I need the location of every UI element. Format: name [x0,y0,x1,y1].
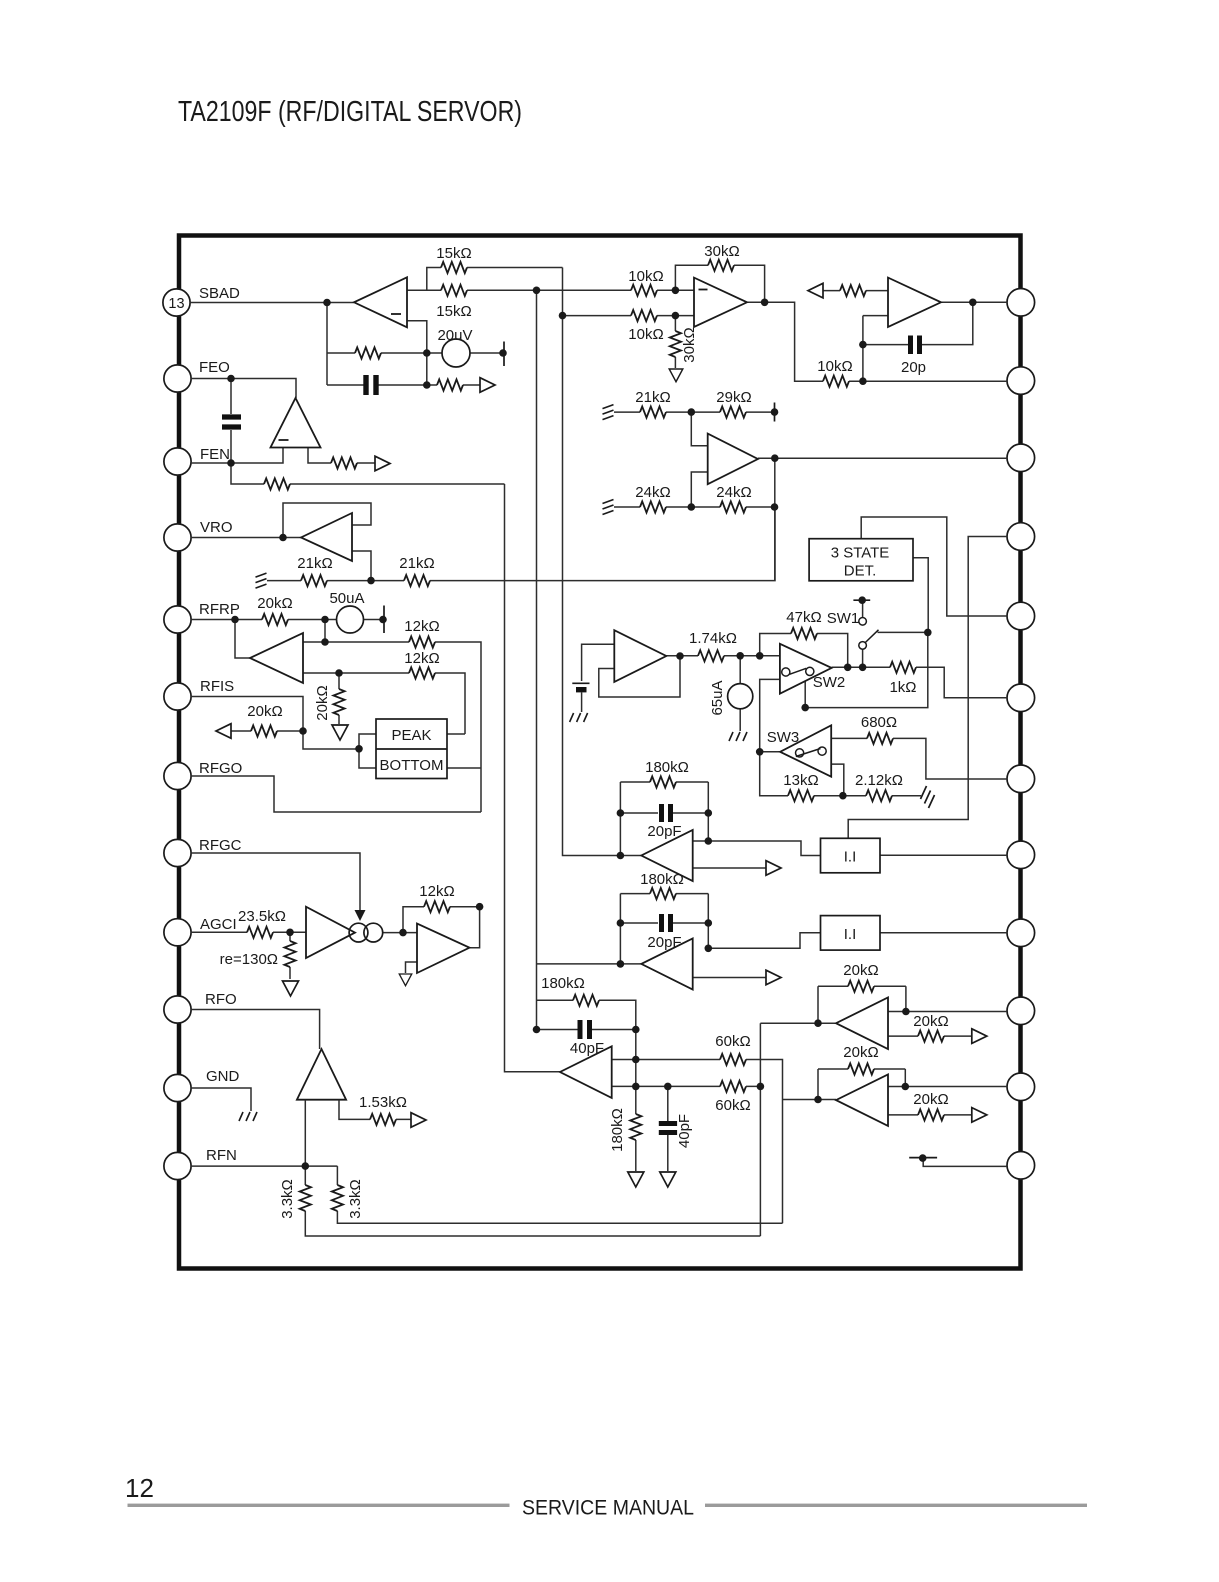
junction dot 24k right [771,503,779,511]
wire 20k vertical column [338,673,340,724]
wire 40pF mb cap row [537,1029,636,1031]
junction dot 65uA node [736,652,744,660]
capacitor mid amp bar [576,687,587,692]
svg-text:20p: 20p [901,359,926,376]
svg-text:12: 12 [125,1473,154,1503]
resistor 30k feedback [708,260,734,271]
ground hash VRO 21k [256,573,267,588]
resistor 15k mid [441,285,467,296]
down arrow 40pF vert [660,1172,676,1187]
resistor 47k [791,628,817,639]
resistor A3 input [840,285,866,296]
junction dot 29k terminal [771,408,779,416]
down arrow AGC amp [399,974,411,986]
SW1 contact bottom [859,642,867,650]
resistor 20k vertical [333,689,344,715]
svg-text:29kΩ: 29kΩ [716,389,751,406]
junction dot cap1 right [705,809,713,817]
capacitor 20pF2 bars [662,914,671,932]
wire 12k row1 y642 [303,642,481,812]
wire 3state box right link [913,558,928,633]
resistor 30k vertical [670,331,681,357]
resistor RFRP 20k [262,614,288,625]
ground hash 65uA [729,732,747,741]
svg-text:3.3kΩ: 3.3kΩ [347,1179,364,1219]
pin RFRP circle [164,606,191,633]
junction dot RFN [302,1162,310,1170]
wire FEO cap column [230,379,232,464]
wire GND pin [191,1088,251,1111]
svg-text:RFGO: RFGO [199,760,242,777]
wire 12k feedback AGC [403,907,480,948]
svg-text:180kΩ: 180kΩ [645,759,689,776]
junction dot amp2 out [705,945,713,953]
wire 10k out row to pin2 [849,380,1007,382]
svg-text:50uA: 50uA [329,590,364,607]
wire A4 feedback vertical x775 [774,458,776,580]
box I.I 2 [821,916,881,951]
wire 20pF2 cap row [620,922,708,924]
wire amp4 apex feed [783,1099,837,1101]
arrow amp3 out [972,1029,987,1044]
wire resistor row y353 [327,352,442,354]
svg-text:680Ω: 680Ω [861,714,897,731]
capacitor 40pF mb bars [580,1020,590,1039]
junction dot 21k29k [688,408,696,416]
svg-text:1kΩ: 1kΩ [889,679,916,696]
arrow 1.53k [411,1113,426,1128]
arrow amp2 out [766,970,781,985]
wire VRO pin to amp [191,537,301,539]
resistor 24k second [720,501,746,512]
wire 21k 29k row y412 [614,411,775,413]
svg-text:TA2109F (RF/DIGITAL SERVOR): TA2109F (RF/DIGITAL SERVOR) [178,96,522,128]
resistor FEN out [331,457,357,468]
wire cap to ground [581,693,583,713]
junction dot 50uA terminal [379,616,387,624]
terminal bar 20uV [503,342,505,367]
svg-text:I.I: I.I [844,926,857,943]
pin RFO circle [164,996,191,1023]
wire mb input1 60k row [612,1060,783,1224]
ground hash 24k row [603,500,614,515]
resistor 21k first [301,575,327,586]
wire SW3 control stub [831,764,844,796]
wire RFRP to amp apex [235,620,250,659]
svg-text:23.5kΩ: 23.5kΩ [238,908,286,925]
RFGC arrow into mirror [355,910,366,921]
svg-text:I.I: I.I [844,849,857,866]
op-amp AGC [417,924,470,974]
svg-text:12kΩ: 12kΩ [404,618,439,635]
wire 24k row y507 [614,506,775,508]
svg-text:20uV: 20uV [437,327,472,344]
resistor FEN feedback [264,478,290,489]
svg-text:PEAK: PEAK [391,727,431,744]
wire FEN feedback row y484 [231,463,505,484]
wire A4 input2 [691,472,707,507]
junction dot 20uV terminal [499,349,507,357]
svg-text:3.3kΩ: 3.3kΩ [279,1179,296,1219]
resistor 23.5k [247,927,273,938]
wire SW3 apex stub [760,751,780,753]
resistor 24k first [640,501,666,512]
junction dot amp1 apex [617,852,625,860]
wire mid amp input bottom loop [599,656,680,697]
pin FEO circle [164,365,191,392]
minus sign FEN amp [279,439,289,441]
current mirror circle 2 [364,923,383,942]
wire A3 input1 [823,290,888,292]
svg-text:1.53kΩ: 1.53kΩ [359,1094,407,1111]
svg-text:12kΩ: 12kΩ [419,883,454,900]
resistor 3.3k first vertical [300,1185,311,1211]
wire VRO feedback box [283,503,371,538]
capacitor C-FEO bars [222,417,241,427]
op-amp A3 [888,278,941,327]
junction dot 10k row1 [672,287,680,295]
right pin 9 circle [1007,919,1035,947]
wire I.I box2 to pin9 [880,932,1007,934]
capacitor C-A bars [366,375,376,395]
junction dot 20p left [859,341,867,349]
right pin 8 circle [1007,841,1035,869]
svg-text:24kΩ: 24kΩ [635,484,670,501]
svg-text:20kΩ: 20kΩ [843,1044,878,1061]
wire AGCI pin row [191,931,306,933]
source 50uA circle [337,606,364,633]
junction dot V3/10k row [559,312,567,320]
down arrow re130 [283,981,299,996]
svg-text:24kΩ: 24kΩ [716,484,751,501]
wire mid amp output row y655.8 [666,655,780,657]
svg-text:FEN: FEN [200,446,230,463]
junction dot cap2 left [617,919,625,927]
wire RFO pin [191,1010,320,1050]
wire amp4 output2 arrow [888,1114,972,1116]
svg-text:30kΩ: 30kΩ [704,243,739,260]
wire amp2 output to I.I box2 [708,933,820,949]
svg-text:30kΩ: 30kΩ [681,327,698,362]
right pin 6 circle [1007,684,1035,712]
junction dot amp4 out [902,1083,910,1091]
wire mirror output [383,932,417,934]
op-amp RFRP [250,633,303,683]
resistor 3.3k second vertical [332,1185,343,1211]
junction dot amp4 apex [814,1096,822,1104]
junction dot SW3 apex [756,748,764,756]
wire 2.12k to hash [843,795,921,797]
junction dot 21k row [367,577,375,585]
terminal bar pin12 [909,1157,937,1159]
resistor 10k row2 [631,310,657,321]
svg-text:60kΩ: 60kΩ [715,1033,750,1050]
wire GND amp base left column [305,1100,760,1236]
junction dot V2 cap [533,1026,541,1034]
minus sign A1 [391,313,401,315]
wire SBAD pin to op-amp A1 [190,302,354,304]
op-amp SW3 [780,725,831,776]
resistor 1.53k [370,1114,396,1125]
svg-text:15kΩ: 15kΩ [436,245,471,262]
long vertical V2 x536.5 [536,290,538,1029]
op-amp A4 [708,434,758,485]
wire mid amp input top to cap [582,644,615,681]
wire mb input2 60k row [612,1085,761,1087]
wire amp2 apex feed [537,963,642,965]
svg-text:GND: GND [206,1068,240,1085]
wire 50uA node down [324,620,326,643]
terminal dot pin12 [919,1154,927,1162]
SW1 lever [865,630,879,643]
right pin 12 circle [1007,1152,1035,1180]
svg-text:47kΩ: 47kΩ [786,609,821,626]
resistor RFIS 20k [251,725,277,736]
wire node A1 inverting branch vertical [326,303,328,386]
resistor 12k AGC [424,901,450,912]
svg-text:SW3: SW3 [767,729,800,746]
resistor 21k row [640,407,666,418]
wire A2 output [747,302,823,381]
svg-text:12kΩ: 12kΩ [404,650,439,667]
SW1 terminal dot [858,596,866,604]
svg-text:3 STATE: 3 STATE [831,545,890,562]
SW2 switch circle left [782,668,790,676]
wire 21k row y580.6 [267,507,775,581]
down arrow 180k vert [628,1172,644,1187]
wire A3 output to pin1 [941,301,1007,303]
junction dot 23.5k [286,929,294,937]
junction dot 47k out [844,664,852,672]
op-amp SW2 [780,644,832,694]
resistor 1.74k [698,650,724,661]
RIGHT PINS [1007,289,1035,1180]
wire RFN pin [191,1165,337,1167]
op-amp mid driver [614,630,666,682]
op-amp 180k amp1 [641,830,692,881]
wire RFGC pin [191,853,360,912]
wire A4 input1 [691,412,707,446]
wire RFRP pin row [191,619,384,621]
svg-text:RFO: RFO [205,991,237,1008]
ground hash 21k row [603,405,614,420]
op-amp A1 [354,277,407,327]
svg-text:40pF: 40pF [676,1114,693,1148]
wire SW2 lower stub to SW3 [760,679,843,795]
arrow RFIS left [216,724,231,739]
wire 20pF1 cap row [620,812,708,814]
footer rule left [128,1504,510,1507]
junction dot FEO [227,375,235,383]
wire amp3 loop [818,986,906,1023]
wire FEN amp right stub to resistor [308,448,375,464]
op-amp 20k amp3 [836,998,888,1050]
junction dot 13k out [839,792,847,800]
wire AGC amp lower stub [406,962,418,973]
wire A1 output line L1 y290.3 [407,289,694,291]
resistor 20k amp3 loop [848,981,874,992]
right pin 10 circle [1007,997,1035,1025]
wire 47k loop [760,634,848,668]
IC border box [179,236,1021,1269]
wire GND amp base right to 1.53k [339,1100,411,1120]
junction dot 12k row1 [321,638,329,646]
resistor 680 [867,733,893,744]
SW1 terminal bar [853,599,870,601]
wire RFIS pin [191,697,359,750]
capacitor 40pF vertical bars [659,1124,677,1133]
resistor 29k [720,407,746,418]
resistor 10k row1 [631,285,657,296]
junction dot mb in1 [632,1056,640,1064]
junction dot cap1 left [617,809,625,817]
SW1 contact top [859,618,867,626]
resistor 180k amp1 [650,776,676,787]
resistor 13k [788,790,814,801]
long vertical V3 x562.5 with branch to 10k row [563,268,642,856]
junction dot mirror out [399,929,407,937]
junction dot RFIS PEAK [355,745,363,753]
svg-text:VRO: VRO [200,519,233,536]
down arrow 30k vertical [669,369,683,382]
junction dot amp1 out [705,837,713,845]
junction dot mid out [676,652,684,660]
resistor 20k amp4 out [918,1109,944,1120]
svg-text:FEO: FEO [199,359,230,376]
svg-text:13kΩ: 13kΩ [783,772,818,789]
junction dot y353 [423,349,431,357]
pin VRO circle [164,524,191,551]
arrow out A1 [480,378,495,393]
junction dot 10k out [859,377,867,385]
box I.I 1 [821,838,881,873]
junction dot amp3 apex [814,1019,822,1027]
junction dot 24k mid [688,503,696,511]
wire amp3 apex feed [760,1023,836,1236]
svg-text:13: 13 [168,296,184,312]
op-amp FEN (up pointing) [271,398,321,448]
junction dot A3 out [969,299,977,307]
wire amp2 output2 arrow [693,977,766,979]
junction dot SBAD [323,299,331,307]
junction dot SW1 out [859,664,867,672]
junction dot 47k node [756,652,764,660]
junction dot 60k2 out [757,1083,765,1091]
svg-text:180kΩ: 180kΩ [640,871,684,888]
junction dot amp2 apex [617,960,625,968]
wire 30k feedback loop A2 [675,265,764,302]
op-amp A2 [694,278,747,327]
junction dot y385 [423,381,431,389]
svg-text:RFIS: RFIS [200,678,234,695]
right pin 2 circle [1007,367,1035,395]
pin GND circle [164,1074,191,1101]
wire RFN column 3.3k#2 [337,1166,782,1223]
capacitor mid amp plate [572,682,589,684]
wire BOTTOM right stub [447,767,481,769]
pin RFIS circle [164,683,191,710]
junction dot amp3 out [902,1008,910,1016]
buffer amp AGC [306,907,355,958]
svg-text:20kΩ: 20kΩ [257,595,292,612]
op-amp 20k amp4 [836,1075,888,1126]
wire SW2 control [805,632,928,707]
wire 65uA column [739,656,741,731]
wire PEAK left stubs [359,734,376,768]
resistor re130 vertical [284,941,295,967]
junction dot SW1 det [924,629,932,637]
svg-text:RFRP: RFRP [199,601,240,618]
SW2 switch circle right [806,667,814,675]
SW3 switch circle right [818,747,826,755]
junction dot SW2 control [801,704,809,712]
junction dot VRO [279,534,287,542]
junction dot 10k row2 [672,312,680,320]
svg-text:21kΩ: 21kΩ [635,389,670,406]
op-amp GND (up pointing) [297,1049,346,1100]
resistor A1 offset [355,347,381,358]
op-amp 180k amp2 [641,939,692,990]
svg-text:20kΩ: 20kΩ [913,1013,948,1030]
wire A3 input2 [863,315,888,317]
junction dot A4 out [771,454,779,462]
svg-text:20kΩ: 20kΩ [913,1091,948,1108]
right pin 7 circle [1007,765,1035,793]
terminal bar 50uA [383,606,385,634]
wire 180k vert column [635,1086,637,1171]
wire SW1 column [862,600,864,667]
right pin 1 circle [1007,289,1035,317]
junction dot after 20k [321,616,329,624]
source 20uV circle [442,339,470,367]
resistor 12k row2 [409,667,435,678]
wire PEAK right stub [447,733,465,735]
wire amp4 loop [818,1069,905,1100]
svg-text:SERVICE MANUAL: SERVICE MANUAL [522,1497,694,1520]
wire RFIS 20k arrow row [231,730,303,732]
op-amp mid-bottom [560,1046,612,1098]
svg-text:BOTTOM: BOTTOM [380,757,444,774]
wire cap row y385 [327,384,480,386]
footer rule right [705,1504,1087,1507]
right pin 11 circle [1007,1073,1035,1101]
wire pin12 terminal link [923,1158,1007,1166]
source 65uA circle [728,684,753,709]
wire amp1 output2 arrow [693,867,766,869]
resistor 15k top [441,262,467,273]
junction dot 12k row2 [335,669,343,677]
box PEAK BOTTOM [376,719,447,779]
capacitor 20p bars [911,336,920,355]
resistor 180k amp2 [650,888,676,899]
junction dot RFIS 20k [299,727,307,735]
pin RFGO circle [164,762,191,789]
wire FEN pin [191,448,283,464]
junction dot cap2 right [705,919,713,927]
wire RFGO pin [191,776,481,812]
svg-text:20kΩ: 20kΩ [247,703,282,720]
wire pin4 long link down to I.I box1 [848,537,1007,839]
svg-text:1.74kΩ: 1.74kΩ [689,630,737,647]
wire amp4 output to pin11 [888,1086,1007,1088]
svg-text:20kΩ: 20kΩ [843,962,878,979]
wire SW1 lever row [878,631,928,633]
wire 30k vertical column [674,316,676,368]
svg-text:SW2: SW2 [813,674,846,691]
arrow A3 input left [808,283,823,298]
junction dot 40p vert top [664,1083,672,1091]
resistor 180k vertical [630,1114,641,1140]
